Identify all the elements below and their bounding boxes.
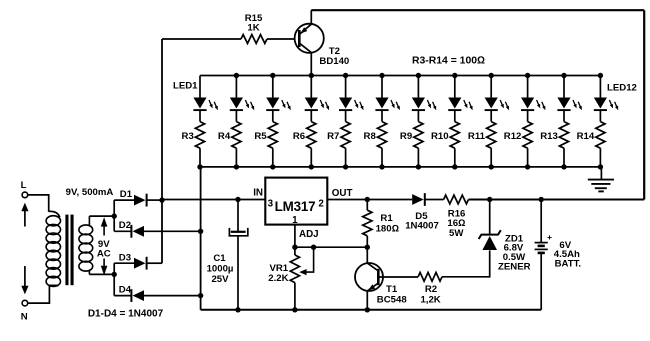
wire L to transformer — [28, 195, 49, 212]
wire ZD1 top lead — [489, 200, 491, 235]
svg-text:ZENER: ZENER — [498, 262, 531, 273]
wire LED top rail — [200, 75, 600, 77]
node top rail c5 — [343, 73, 348, 78]
resistor R9 — [417, 111, 419, 122]
resistor R3 — [199, 111, 201, 122]
wire R16 to right corner — [469, 199, 645, 201]
diode D2 — [130, 225, 132, 238]
op-amp U1 LM317 box — [265, 178, 327, 225]
node R1-T1 junction — [365, 245, 370, 250]
node top rail c3 — [270, 73, 275, 78]
transistor T1 base bar — [377, 269, 380, 285]
variable resistor VR1 — [290, 255, 299, 283]
node top rail c9 — [489, 73, 494, 78]
node battery top junction — [539, 197, 544, 202]
svg-text:LM317: LM317 — [275, 199, 316, 214]
LED5 — [345, 76, 347, 98]
wire bottom rail — [201, 309, 542, 311]
wire D5 to R16 — [425, 199, 444, 201]
node top rail c8 — [452, 73, 457, 78]
transistor T1 collector slant — [367, 263, 378, 271]
wire ground lead — [600, 167, 602, 180]
svg-text:D4: D4 — [119, 285, 132, 296]
svg-text:+: + — [547, 232, 552, 242]
node bottom rail c11 — [561, 164, 566, 169]
svg-text:25V: 25V — [211, 274, 229, 285]
LED4 — [310, 76, 312, 98]
wire IN line — [162, 199, 265, 201]
transistor T2 emitter arrow (PNP) — [300, 27, 307, 33]
svg-text:180Ω: 180Ω — [376, 223, 399, 234]
wire OUT line segment 1 — [327, 199, 412, 201]
svg-text:AC: AC — [97, 249, 111, 260]
LED12 — [599, 76, 601, 98]
wire R2 to ZD1 bottom — [442, 250, 490, 276]
svg-text:IN: IN — [253, 188, 263, 199]
node wiper junction — [311, 245, 316, 250]
diode D5 — [412, 194, 424, 205]
node bottom rail c5 — [343, 164, 348, 169]
LED6 — [381, 76, 383, 98]
node bottom rail c2 — [234, 164, 239, 169]
svg-text:R10: R10 — [431, 131, 449, 142]
svg-text:R7: R7 — [327, 131, 339, 142]
resistor R7 — [345, 111, 347, 122]
wire R15 to T2 base — [267, 38, 295, 40]
svg-text:3: 3 — [268, 199, 274, 210]
node top rail c2 — [234, 73, 239, 78]
svg-text:9V, 500mA: 9V, 500mA — [66, 187, 114, 198]
LED1 — [199, 76, 201, 98]
wire right side vertical — [643, 10, 645, 199]
node top rail c12 — [598, 73, 603, 78]
node bottom rail c9 — [489, 164, 494, 169]
capacitor C1 cup — [229, 228, 247, 236]
LED10 — [527, 76, 529, 98]
node bottom rail c6 — [379, 164, 384, 169]
wire T2 emitter up — [310, 10, 312, 24]
transformer secondary winding — [88, 216, 90, 226]
capacitor C1 plus plate — [231, 231, 246, 233]
node ADJ-VR1 junction — [292, 245, 297, 250]
wire N to transformer — [28, 285, 59, 303]
node C1 top junction — [235, 197, 240, 202]
node bottom rail c1 — [197, 164, 202, 169]
LED3 — [272, 76, 274, 98]
arrow mains down — [24, 266, 26, 287]
svg-text:D1: D1 — [120, 189, 133, 200]
svg-text:D2: D2 — [119, 220, 131, 231]
wire R15 left lead — [162, 38, 241, 40]
node C1 bottom rail — [235, 307, 240, 312]
diode D3 — [134, 258, 146, 269]
svg-text:LED12: LED12 — [607, 83, 637, 94]
diode D4 — [130, 289, 132, 302]
svg-text:C1: C1 — [213, 253, 226, 264]
svg-text:R3: R3 — [182, 131, 194, 142]
terminal N — [22, 300, 28, 306]
svg-text:R2: R2 — [425, 284, 437, 295]
diode D1 — [134, 195, 146, 206]
wire R1 bottom lead — [366, 236, 368, 247]
node secondary bottom junction — [112, 272, 117, 277]
transistor T1 emitter slant — [367, 283, 378, 291]
ground — [588, 179, 614, 181]
node VR1 bottom rail — [292, 307, 297, 312]
wire T1 collector — [366, 247, 368, 263]
wire battery bottom lead — [540, 253, 542, 310]
resistor R1 — [363, 210, 372, 236]
node bottom rail c8 — [452, 164, 457, 169]
node top rail c7 — [416, 73, 421, 78]
resistor R6 — [310, 111, 312, 122]
node top rail c6 — [379, 73, 384, 78]
wire top rail (T2 emitter to right side) — [311, 9, 644, 11]
wire D3 cathode lead — [147, 262, 162, 264]
svg-text:R12: R12 — [504, 131, 522, 142]
node D4 anode junction — [198, 293, 203, 298]
node D1 cathode junction — [159, 197, 164, 202]
resistor R14 — [599, 111, 601, 122]
svg-text:R4: R4 — [218, 131, 231, 142]
zener ZD1 triangle — [482, 236, 497, 250]
svg-text:ADJ: ADJ — [299, 229, 319, 240]
svg-text:5W: 5W — [449, 228, 464, 239]
wire D4 anode lead — [144, 295, 201, 297]
wire D2 anode lead — [144, 230, 201, 232]
svg-text:N: N — [21, 312, 28, 323]
wire D1 anode lead — [114, 199, 134, 201]
node bottom rail c12 — [598, 164, 603, 169]
node bottom rail c10 — [525, 164, 530, 169]
node top rail c4 — [309, 73, 314, 78]
wire R1 top lead — [366, 200, 368, 211]
wire secondary bottom — [89, 273, 114, 275]
wire C1 top lead — [237, 200, 239, 232]
arrow mains up — [24, 210, 26, 227]
svg-text:1,2K: 1,2K — [420, 295, 440, 306]
wire C1 bottom lead — [237, 236, 239, 310]
transistor T2 base bar — [298, 30, 301, 47]
resistor R4 — [235, 111, 237, 122]
svg-text:1: 1 — [292, 215, 298, 226]
node bottom rail c4 — [309, 164, 314, 169]
wire T2 collector down — [310, 52, 312, 75]
resistor R2 — [418, 272, 442, 281]
wire VR1 wiper — [305, 247, 314, 272]
svg-text:2.2K: 2.2K — [268, 273, 288, 284]
battery BT1 — [535, 242, 548, 244]
arrow 9V AC down — [103, 259, 105, 267]
svg-text:R3-R14 = 100Ω: R3-R14 = 100Ω — [412, 56, 485, 67]
resistor R11 — [490, 111, 492, 122]
svg-text:R1: R1 — [380, 213, 393, 224]
transformer primary winding — [49, 211, 60, 217]
wire D3 anode lead — [114, 262, 134, 264]
wire secondary top — [89, 215, 114, 217]
node bottom rail c7 — [416, 164, 421, 169]
svg-text:BD140: BD140 — [319, 56, 349, 67]
node D2 anode junction — [198, 229, 203, 234]
svg-text:BC548: BC548 — [377, 295, 408, 306]
LED8 — [454, 76, 456, 98]
wire ADJ pin down — [294, 225, 296, 248]
resistor R16 — [444, 195, 469, 204]
resistor R10 — [454, 111, 456, 122]
resistor R5 — [272, 111, 274, 122]
wire negative vertical (ground to D2/D4) — [200, 167, 202, 310]
svg-text:1N4007: 1N4007 — [405, 221, 439, 232]
svg-text:R5: R5 — [254, 131, 267, 142]
svg-text:1000µ: 1000µ — [207, 263, 234, 274]
svg-text:R9: R9 — [400, 131, 412, 142]
transformer core — [65, 215, 68, 286]
svg-text:T1: T1 — [386, 284, 398, 295]
transistor T2 emitter slant — [300, 24, 312, 34]
node R1 top junction — [365, 197, 370, 202]
transistor T1 circle — [355, 263, 383, 291]
wire T1 emitter down — [366, 291, 368, 310]
LED7 — [417, 76, 419, 98]
svg-text:R13: R13 — [540, 131, 558, 142]
wire D3-D4 left connector — [113, 263, 115, 295]
svg-text:R11: R11 — [468, 131, 486, 142]
wire D2 cathode lead — [114, 230, 131, 232]
LED9 — [490, 76, 492, 98]
arrow 9V AC up — [103, 226, 105, 236]
node T1 emitter rail — [365, 307, 370, 312]
transistor T2 collector slant — [300, 43, 312, 52]
wire D1 cathode lead — [147, 199, 162, 201]
svg-text:L: L — [21, 180, 27, 191]
node ZD1 top junction — [487, 197, 492, 202]
svg-text:D1-D4 = 1N4007: D1-D4 = 1N4007 — [88, 308, 164, 319]
transistor T1 emitter arrow (NPN) — [368, 284, 375, 290]
transistor T2 circle — [295, 24, 324, 53]
wire VR1 bottom lead — [294, 283, 296, 310]
arrow VR1 wiper head — [299, 269, 306, 275]
svg-text:BATT.: BATT. — [555, 259, 581, 270]
terminal L — [22, 192, 28, 198]
resistor R13 — [563, 111, 565, 122]
svg-text:R6: R6 — [293, 131, 305, 142]
svg-text:D3: D3 — [119, 252, 131, 263]
LED2 — [235, 76, 237, 98]
wire LED bottom rail (ground rail) — [200, 166, 601, 168]
svg-text:1K: 1K — [247, 23, 259, 34]
resistor R12 — [527, 111, 529, 122]
wire D1-D2 left connector — [113, 200, 115, 231]
svg-text:LED1: LED1 — [173, 81, 198, 92]
wire T1 base to R2 — [380, 276, 419, 278]
svg-text:R14: R14 — [577, 131, 595, 142]
node bottom rail c3 — [270, 164, 275, 169]
svg-text:2: 2 — [318, 199, 324, 210]
node secondary top junction — [112, 213, 117, 218]
wire D4 cathode lead — [114, 295, 131, 297]
svg-text:OUT: OUT — [332, 188, 353, 199]
node top rail c10 — [525, 73, 530, 78]
wire positive vertical (R15/D1/D3) — [161, 39, 163, 263]
LED11 — [563, 76, 565, 98]
wire battery top lead — [540, 200, 542, 243]
wire VR1 top lead — [294, 247, 296, 255]
zener ZD1 cathode bar — [479, 230, 501, 239]
resistor R15 — [241, 35, 267, 44]
node top rail c11 — [561, 73, 566, 78]
svg-text:R8: R8 — [364, 131, 377, 142]
wire ADJ horizontal — [295, 246, 367, 248]
resistor R8 — [381, 111, 383, 122]
